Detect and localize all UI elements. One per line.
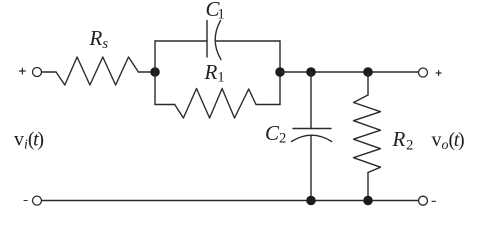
bottom right minus sign [432,200,436,202]
wire: Rs to node A [138,71,155,73]
wire: C2 to bottom rail [310,135,312,200]
wire: R1 bottom branch left segment [155,104,175,106]
capacitor C2 straight plate [293,128,331,130]
output terminal plus sign [436,71,441,76]
wire: node B to output terminal [280,71,419,73]
capacitor C1 left plate [206,21,208,58]
svg-text:R1: R1 [204,60,225,86]
node C junction dot (C2 top) [306,67,316,77]
wire: top branch right segment from C1 [215,40,280,42]
wire: R2 to bottom rail [367,173,369,201]
wire: input circle to Rs [42,71,56,73]
node D junction dot (R2 top) [363,67,373,77]
wire: R1 bottom branch right segment [256,104,280,106]
resistor R2 [354,95,381,173]
resistor Rs [56,57,138,85]
wire: top branch left segment to C1 [155,40,207,42]
wire: right side vertical of parallel block [279,41,281,105]
wire: node D down to R2 [367,72,369,95]
wire: node A vertical (left side of parallel block) [154,41,156,105]
bottom rail wire [42,200,419,202]
capacitor C1 curved plate [215,21,221,60]
svg-text:C1: C1 [206,0,225,23]
output terminal circle (top right) [419,68,428,77]
node B junction dot (right of parallel block) [275,67,285,77]
resistor R1 [175,89,256,119]
wire: node C down to C2 [310,72,312,129]
node F junction dot (R2 bottom) [363,196,373,206]
node A junction dot [150,67,160,77]
svg-text:vo(t): vo(t) [432,129,465,153]
input terminal plus sign [20,68,26,74]
input terminal circle (top left) [33,68,42,77]
capacitor C2 curved plate [292,135,332,141]
svg-text:vi(t): vi(t) [14,129,44,153]
node E junction dot (C2 bottom) [306,196,316,206]
bottom left terminal circle [33,196,42,205]
svg-text:R2: R2 [392,127,414,154]
bottom right terminal circle [419,196,428,205]
bottom left minus sign [24,200,27,202]
svg-text:C2: C2 [265,121,286,147]
svg-text:Rs: Rs [89,26,109,52]
